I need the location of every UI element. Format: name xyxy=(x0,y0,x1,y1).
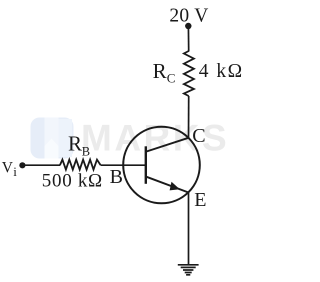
svg-text:i: i xyxy=(13,164,17,179)
svg-text:MARKS: MARKS xyxy=(81,118,229,159)
svg-text:E: E xyxy=(194,189,206,211)
node Vi dot xyxy=(19,162,25,168)
svg-text:R: R xyxy=(68,132,82,156)
label RB xyxy=(68,132,90,159)
svg-text:R: R xyxy=(153,59,167,83)
node supply dot xyxy=(185,23,191,29)
wire supply to RC xyxy=(187,26,189,52)
svg-text:B: B xyxy=(110,166,123,188)
resistor RB xyxy=(60,160,101,170)
svg-text:B: B xyxy=(82,144,90,158)
svg-text:500 kΩ: 500 kΩ xyxy=(42,170,103,191)
watermark logo xyxy=(31,118,74,159)
wire RB to base xyxy=(101,164,146,166)
label Vi xyxy=(2,160,18,180)
svg-text:C: C xyxy=(192,125,205,147)
svg-text:4 kΩ: 4 kΩ xyxy=(199,61,243,82)
wire RC to collector xyxy=(188,96,190,139)
svg-text:C: C xyxy=(167,71,176,86)
wire emitter to ground xyxy=(188,193,190,265)
resistor RC xyxy=(184,51,194,96)
svg-text:V: V xyxy=(2,160,14,177)
wire Vi to RB xyxy=(22,164,60,166)
transistor Q1 (NPN) xyxy=(123,127,200,204)
ground xyxy=(178,265,199,275)
label RC xyxy=(153,59,176,86)
